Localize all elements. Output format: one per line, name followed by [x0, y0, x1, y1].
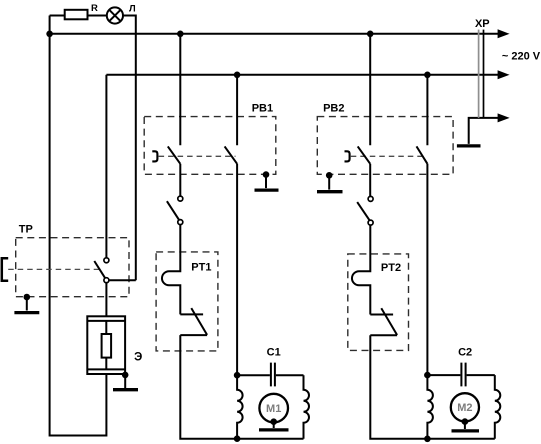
thermal element PT1 [162, 225, 180, 315]
svg-text:M1: M1 [266, 403, 281, 415]
arrow third [498, 113, 510, 122]
linkage TP [8, 268, 99, 270]
svg-text:M2: M2 [457, 402, 472, 414]
contact PB2 left [358, 146, 371, 163]
inductor M1 right winding [304, 375, 310, 439]
node M1 bottom [234, 435, 241, 442]
wire TP contact down to heater [105, 283, 107, 317]
wire bus2 to PB1 right contact [236, 75, 238, 145]
inductor M2 right winding [495, 375, 501, 439]
svg-text:PB2: PB2 [323, 102, 344, 114]
actuator PB1 [152, 151, 157, 161]
knife contact under PB2 [357, 196, 373, 225]
wire PB1 right contact down [236, 164, 238, 375]
linkage PB1 [159, 155, 236, 157]
thermal element PT2 [352, 225, 370, 314]
contact PB1 right [225, 146, 238, 163]
ground M2 [452, 418, 480, 431]
ground M1 [259, 418, 289, 429]
arrow bus1 [498, 29, 510, 38]
knife contact under PB1 [167, 196, 183, 225]
resistor R [65, 3, 98, 19]
wire top-left loop (left vertical + bottom of heater loop) [50, 16, 107, 436]
inductor M2 left winding [427, 375, 433, 439]
svg-text:TP: TP [19, 223, 33, 235]
connector XP double line [475, 18, 490, 118]
contact TP [94, 258, 109, 283]
node bus2-PB1 [234, 72, 241, 79]
ground TP box [14, 294, 39, 313]
ground PB2 box [317, 172, 343, 192]
wire PB1 left contact down [179, 164, 181, 196]
switch PB2 dashed box [317, 102, 453, 174]
node bus1-left [46, 31, 53, 38]
switch PB1 dashed box [144, 102, 276, 174]
thermal contact PT2 [370, 308, 397, 335]
ground under XP [457, 144, 481, 147]
wire resistor to lamp [88, 15, 107, 17]
node C2 top [424, 372, 431, 379]
svg-text:PB1: PB1 [252, 102, 273, 114]
lamp L [107, 4, 136, 24]
linkage PB2 [351, 155, 426, 157]
wire third tap to XP [469, 118, 499, 144]
relay TP dashed box [16, 223, 129, 296]
relay PT1 dashed box [156, 252, 218, 351]
wire bus1 to PB1 left contact [179, 34, 181, 145]
wire PT2 down and bottom to motor loop [370, 335, 495, 439]
heater element E [87, 316, 142, 374]
svg-text:Л: Л [129, 4, 136, 15]
node bus2-PB2 [424, 72, 431, 79]
thermal sensor bracket TP [2, 258, 8, 281]
relay PT2 dashed box [348, 254, 409, 351]
arrow bus2 [498, 70, 510, 79]
node C1 top [234, 372, 241, 379]
wire PB2 right contact down [426, 164, 428, 375]
capacitor C1 [237, 346, 303, 386]
wire lamp drop [123, 16, 136, 281]
wire PT1 down and bottom to motor loop [180, 335, 303, 439]
node bus1-PB2 [367, 31, 374, 38]
capacitor C2 [427, 347, 494, 387]
motor M2 [451, 393, 479, 421]
ground PB1 box [255, 171, 279, 190]
svg-text:R: R [91, 3, 98, 14]
contact PB2 right [417, 146, 428, 163]
node M2 bottom [424, 436, 431, 443]
svg-text:C2: C2 [458, 347, 472, 359]
ground heater [113, 372, 138, 390]
node bus1-PB1 [177, 31, 184, 38]
wire bus2 to PB2 right contact [426, 75, 428, 145]
svg-text:PT1: PT1 [191, 261, 211, 273]
svg-text:C1: C1 [267, 346, 281, 358]
svg-text:PT2: PT2 [381, 262, 401, 274]
thermal contact PT1 [180, 308, 207, 335]
svg-text:XP: XP [475, 18, 490, 30]
svg-text:Э: Э [134, 352, 142, 364]
svg-text:~ 220 V: ~ 220 V [502, 51, 541, 63]
inductor M1 left winding [237, 375, 243, 439]
actuator PB2 [345, 151, 350, 161]
motor M1 [259, 394, 288, 423]
contact PB1 left [168, 146, 181, 163]
wire PB2 left contact down [369, 164, 371, 197]
bus line 2 (second phase) [106, 74, 499, 76]
wire bus1 to PB2 left contact [369, 34, 371, 145]
bus line 1 (top phase) [50, 33, 499, 35]
wire bus2 left drop to TP contact [105, 75, 107, 258]
wire TP contact to lamp drop [109, 279, 136, 281]
